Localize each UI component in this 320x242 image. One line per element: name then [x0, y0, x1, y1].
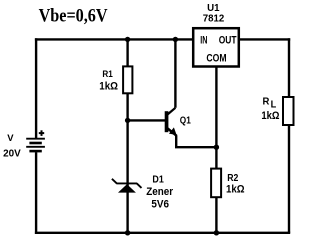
svg-text:Zener: Zener [146, 186, 174, 198]
svg-text:D1: D1 [152, 174, 164, 186]
svg-text:Q1: Q1 [180, 114, 191, 126]
resistor R1 [123, 66, 132, 93]
wire collector vertical [174, 38, 176, 108]
svg-text:V: V [7, 133, 14, 144]
wire OUT to right rail [239, 38, 290, 40]
node emitter/COM junction [214, 145, 219, 150]
svg-text:R1: R1 [102, 69, 113, 80]
wire right vertical [288, 38, 290, 233]
svg-text:20V: 20V [3, 148, 21, 160]
svg-text:1kΩ: 1kΩ [261, 110, 279, 122]
node top junction at collector line [173, 37, 178, 42]
node bottom junction at R2 line [214, 230, 219, 235]
wire emitter to COM node [176, 135, 216, 147]
regulator U1 7812 box [193, 28, 239, 66]
wire left vertical lower [35, 152, 37, 234]
svg-text:OUT: OUT [219, 34, 237, 46]
wire COM/R2 vertical [215, 66, 217, 233]
wire left vertical upper [35, 38, 37, 138]
svg-text:R: R [263, 96, 271, 107]
svg-text:7812: 7812 [203, 14, 225, 25]
node base junction [125, 118, 130, 123]
wire top rail [35, 38, 194, 40]
svg-text:1kΩ: 1kΩ [226, 183, 245, 195]
zener diode D1 [112, 179, 142, 193]
node top junction at R1 line [125, 37, 130, 42]
transistor Q1 [165, 108, 177, 136]
battery V 20V [26, 130, 45, 151]
wire bottom rail [35, 232, 290, 234]
resistor R2 [211, 169, 221, 198]
node bottom junction at D1 line [125, 230, 130, 235]
wire R1/D1 vertical [126, 38, 128, 233]
svg-text:U1: U1 [207, 3, 220, 14]
resistor RL [283, 97, 294, 125]
svg-text:IN: IN [200, 34, 207, 46]
svg-text:R2: R2 [227, 172, 238, 184]
svg-text:1kΩ: 1kΩ [99, 80, 118, 92]
svg-text:Vbe=0,6V: Vbe=0,6V [39, 6, 108, 27]
svg-text:L: L [271, 99, 277, 111]
wire base [128, 119, 166, 121]
svg-text:5V6: 5V6 [151, 198, 169, 210]
svg-text:COM: COM [206, 53, 226, 65]
